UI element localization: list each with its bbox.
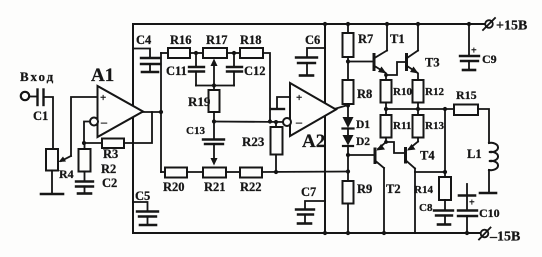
node R18 vertical joins [268, 119, 272, 123]
wire R4 bottom lead [51, 171, 53, 194]
diode D2 [343, 135, 354, 146]
svg-text:–15В: –15В [489, 230, 520, 245]
svg-text:C12: C12 [244, 64, 266, 78]
wire R18 right to A2 inv node [263, 53, 270, 122]
capacitor C13 with wiper arrow to R21 [213, 122, 215, 140]
svg-text:A1: A1 [91, 65, 114, 86]
wire bottom row to T2 base node [262, 171, 348, 174]
terminal -15V [481, 230, 489, 238]
resistor R23 [275, 122, 277, 127]
resistor R18 [240, 48, 263, 58]
wire output node line [385, 103, 387, 116]
transistor T1 [373, 55, 376, 70]
capacitor C1 [38, 90, 44, 106]
wire output down to R14 [444, 109, 446, 172]
node C11 top [194, 51, 198, 55]
wire to R3 [84, 142, 102, 144]
wire R3 to output vertical [124, 112, 152, 143]
diode D1 [343, 117, 354, 128]
ground under C7 [298, 222, 311, 225]
svg-text:R19: R19 [188, 94, 211, 109]
wire R2 to C2 [84, 172, 86, 182]
svg-text:R3: R3 [103, 147, 118, 161]
wire left vertical rail [132, 24, 134, 233]
svg-text:+: + [471, 46, 477, 57]
ground under C5 [140, 224, 156, 227]
resistor R22 [240, 168, 262, 178]
svg-text:C4: C4 [136, 33, 152, 47]
resistor R20 [161, 171, 165, 173]
ground under R4 [41, 193, 63, 196]
resistor R9 [343, 181, 354, 204]
svg-text:–: – [295, 115, 303, 129]
capacitor C11 [195, 53, 197, 67]
wire T1 base [348, 61, 373, 63]
op-amp A2 [290, 83, 336, 136]
svg-text:R2: R2 [101, 162, 116, 176]
resistor R7 [346, 22, 350, 26]
ground under C6 [300, 74, 313, 77]
svg-text:T3: T3 [425, 56, 440, 70]
resistor R8 [343, 80, 354, 104]
wire -15V bottom rail [133, 232, 480, 234]
svg-text:T1: T1 [390, 32, 405, 46]
svg-text:+: + [296, 92, 302, 104]
resistor R10 [381, 80, 392, 103]
capacitor C6 [307, 48, 325, 57]
wire T2 base [348, 154, 374, 156]
svg-text:R8: R8 [357, 87, 372, 101]
capacitor C7 [305, 201, 325, 209]
node output/R16R20 vertical [159, 110, 163, 114]
wire R8 to D1 [347, 104, 349, 117]
node C12 top [232, 51, 236, 55]
svg-text:L1: L1 [467, 147, 482, 161]
resistor R17 (trimmer) [203, 48, 227, 58]
resistor R13 [413, 115, 424, 138]
svg-text:C13: C13 [186, 125, 205, 137]
wire D2 to R9 [347, 146, 349, 181]
wire A2 output [336, 105, 348, 109]
wire R19 bottom [213, 112, 215, 122]
svg-text:C2: C2 [102, 176, 117, 190]
node A1 fb junction [82, 141, 86, 145]
wire C1 to R4 top [45, 97, 54, 149]
svg-text:+15В: +15В [496, 19, 527, 34]
svg-text:D1: D1 [356, 119, 370, 131]
terminal bar L1 [480, 192, 496, 195]
resistor R15 [454, 105, 478, 116]
op-amp A1 [98, 86, 144, 137]
wire A2 + input stub [277, 97, 290, 108]
wire C2 stub [84, 187, 86, 194]
A1 inverting input circle [90, 118, 98, 126]
capacitor C10 electrolytic [458, 211, 477, 217]
node input terminal [21, 92, 29, 100]
svg-text:R12: R12 [425, 86, 444, 98]
transistor T4 [404, 149, 407, 163]
svg-text:R22: R22 [240, 180, 262, 194]
terminal bar C10 [466, 184, 468, 210]
node A2 inv line left [212, 119, 216, 123]
A2 inverting input circle [283, 118, 291, 126]
svg-text:C6: C6 [305, 33, 320, 47]
ground under C9 [463, 69, 475, 72]
wire vertical A2 supply line [324, 24, 326, 233]
svg-text:R15: R15 [456, 88, 477, 102]
wire R16-R17 [190, 52, 203, 54]
node R19 top [212, 83, 216, 87]
svg-text:T4: T4 [420, 149, 435, 163]
wire A1 output [143, 111, 161, 113]
svg-text:+: + [100, 92, 106, 104]
svg-text:R10: R10 [393, 86, 412, 98]
svg-text:R18: R18 [240, 33, 262, 47]
resistor R21 (trimmer) [203, 168, 226, 178]
svg-text:R20: R20 [163, 180, 185, 194]
svg-text:T2: T2 [386, 182, 401, 196]
svg-text:R21: R21 [204, 180, 226, 194]
svg-text:R16: R16 [170, 33, 192, 47]
wire +15V top rail [133, 23, 484, 25]
capacitor C4 [133, 49, 150, 58]
svg-text:R9: R9 [357, 182, 372, 196]
svg-text:R11: R11 [393, 120, 411, 132]
wiper arrow into R4 [61, 156, 71, 161]
svg-text:C1: C1 [33, 109, 48, 123]
transistor T2 [385, 138, 387, 143]
wire R17-R18 [227, 52, 240, 54]
capacitor C9 electrolytic [467, 22, 471, 26]
svg-text:C5: C5 [135, 189, 150, 203]
svg-text:C10: C10 [479, 206, 500, 220]
capacitor C5 [133, 202, 148, 211]
svg-text:R23: R23 [242, 134, 265, 149]
resistor R3 [102, 139, 124, 149]
svg-text:C8: C8 [419, 202, 433, 214]
capacitor C2 [76, 182, 93, 187]
svg-text:D2: D2 [356, 136, 370, 148]
svg-text:+: + [469, 198, 475, 209]
wire A1 - input down [84, 122, 90, 144]
resistor R16 [161, 52, 168, 54]
wire R20-R21 [187, 171, 203, 173]
resistor R2 [79, 149, 91, 172]
node C7 rail [323, 231, 327, 235]
resistor R14 [444, 172, 446, 177]
inductor L1 [489, 143, 498, 170]
svg-text:–: – [100, 115, 108, 129]
wire A1 + input / R4 wiper [71, 97, 98, 156]
resistor R19 with wiper arrow to R17 [213, 63, 215, 90]
svg-text:C9: C9 [482, 52, 497, 66]
svg-text:R4: R4 [59, 167, 74, 181]
transistor T3 [405, 55, 408, 70]
svg-text:R13: R13 [425, 120, 444, 132]
svg-text:A2: A2 [302, 131, 325, 152]
resistor R4 (variable) [46, 149, 58, 171]
ground under C4 [142, 71, 158, 74]
wire T4 collector to R14 node [415, 171, 445, 173]
resistor R12 [413, 80, 424, 103]
capacitor C12 [233, 53, 235, 67]
svg-text:C7: C7 [301, 185, 316, 199]
wire T1 emitter to T3 base staircase [386, 62, 406, 75]
ground under C8 [438, 223, 450, 226]
wire R7 to R8 with T1 base tap [347, 57, 349, 80]
svg-text:R14: R14 [414, 184, 433, 196]
wire T2 emitter to T4 base staircase [386, 142, 405, 153]
ground under C2 [78, 192, 91, 195]
wire A2 inverting node line [214, 121, 284, 124]
svg-text:R17: R17 [206, 33, 228, 47]
ground stub A2 + input [271, 108, 284, 110]
svg-text:C11: C11 [166, 64, 187, 78]
wire R21-R22 [226, 171, 240, 173]
terminal +15V [485, 20, 493, 28]
capacitor C8 [444, 200, 446, 210]
wire R16/R20 vertical from A1 out [160, 53, 162, 172]
svg-text:Вход: Вход [20, 69, 55, 84]
wire C11-C12 bottoms [196, 85, 234, 87]
wire R2 top [84, 143, 86, 149]
svg-text:R7: R7 [358, 32, 373, 46]
wire input to C1 [30, 96, 37, 98]
resistor R11 [381, 115, 392, 138]
